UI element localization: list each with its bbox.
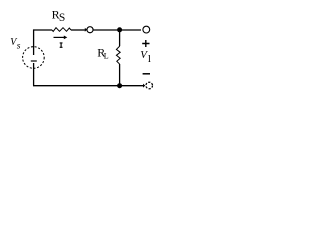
current arrow I bbox=[54, 36, 66, 38]
svg-text:s: s bbox=[17, 41, 21, 51]
wire: vertical down from top junction to RL bbox=[119, 30, 121, 46]
label plus bbox=[142, 40, 149, 47]
wire: node circle to junction bbox=[93, 29, 119, 31]
voltage source minus stroke bbox=[31, 60, 37, 62]
junction dot top bbox=[117, 27, 122, 32]
terminal circle top-right bbox=[143, 26, 150, 33]
svg-text:L: L bbox=[104, 52, 109, 61]
svg-text:l: l bbox=[148, 53, 151, 65]
wire: junction to top-right terminal bbox=[120, 29, 142, 31]
label I (serif strokes) bbox=[60, 43, 63, 47]
arrowhead into node circle bbox=[85, 28, 87, 32]
node circle after RS bbox=[87, 27, 93, 33]
label minus bbox=[143, 73, 150, 75]
resistor RL vertical zigzag bbox=[116, 46, 120, 64]
wire: left vertical from top corner into source (plus stub inside circle) bbox=[33, 29, 35, 55]
wire: RL bottom to bottom junction bbox=[119, 64, 121, 86]
wire: bottom horizontal from left corner to bottom-right arrow bbox=[33, 85, 143, 87]
voltage source VS dashed circle bbox=[23, 47, 45, 69]
terminal circle bottom-right bbox=[146, 82, 153, 89]
svg-text:S: S bbox=[59, 12, 65, 24]
wire: from Rs to node circle bbox=[71, 29, 86, 31]
wire: top-left horizontal from corner to Rs bbox=[34, 29, 52, 31]
junction dot bottom bbox=[117, 83, 122, 88]
arrowhead into bottom-right terminal bbox=[143, 84, 145, 88]
resistor RS zigzag bbox=[52, 28, 71, 32]
wire: left vertical from source bottom to bottom corner bbox=[33, 63, 35, 86]
